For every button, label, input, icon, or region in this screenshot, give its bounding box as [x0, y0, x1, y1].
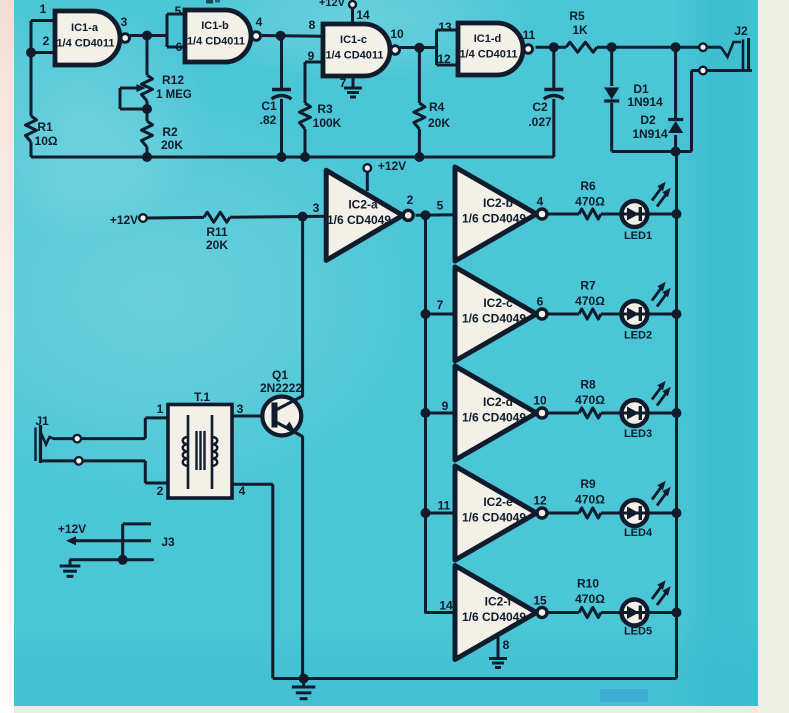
svg-text:470Ω: 470Ω	[575, 393, 605, 407]
svg-text:2N2222: 2N2222	[260, 381, 302, 395]
svg-text:9: 9	[442, 399, 449, 413]
svg-text:1/4 CD4011: 1/4 CD4011	[187, 36, 245, 48]
svg-text:C1: C1	[261, 99, 277, 113]
svg-text:14: 14	[439, 599, 453, 613]
svg-text:1/6 CD4049: 1/6 CD4049	[462, 411, 526, 425]
svg-text:1/6 CD4049: 1/6 CD4049	[462, 610, 526, 624]
svg-text:1/4 CD4011: 1/4 CD4011	[325, 50, 383, 62]
svg-text:.027: .027	[528, 115, 552, 129]
svg-text:R10: R10	[577, 577, 599, 591]
svg-text:2: 2	[43, 34, 50, 48]
svg-text:R6: R6	[580, 179, 596, 193]
svg-text:10Ω: 10Ω	[35, 134, 58, 148]
svg-text:10: 10	[390, 27, 404, 41]
svg-text:6: 6	[176, 40, 183, 54]
svg-text:470Ω: 470Ω	[575, 592, 605, 606]
svg-text:1/4 CD4011: 1/4 CD4011	[56, 38, 114, 50]
svg-text:+12V: +12V	[58, 522, 86, 536]
svg-text:IC2-b: IC2-b	[483, 196, 513, 210]
svg-text:LED3: LED3	[624, 428, 652, 440]
svg-text:R11: R11	[206, 225, 228, 239]
svg-text:LED1: LED1	[624, 230, 652, 242]
svg-text:470Ω: 470Ω	[575, 493, 605, 507]
svg-text:1N914: 1N914	[632, 127, 668, 141]
svg-text:20K: 20K	[161, 138, 183, 152]
svg-text:8: 8	[309, 18, 316, 32]
svg-text:R9: R9	[580, 477, 596, 491]
svg-text:R12: R12	[162, 73, 184, 87]
svg-text:3: 3	[237, 402, 244, 416]
svg-text:D2: D2	[640, 113, 656, 127]
svg-text:1/6 CD4049: 1/6 CD4049	[462, 312, 526, 326]
svg-text:11: 11	[523, 28, 536, 42]
svg-text:1 MEG: 1 MEG	[156, 89, 192, 101]
svg-text:IC2-d: IC2-d	[483, 395, 513, 409]
svg-text:R7: R7	[580, 279, 596, 293]
svg-text:4: 4	[256, 15, 263, 29]
svg-text:4: 4	[537, 195, 544, 209]
svg-text:+12V: +12V	[110, 213, 138, 227]
svg-text:IC2-f: IC2-f	[485, 595, 513, 609]
svg-text:R3: R3	[317, 102, 333, 116]
svg-text:1/4 CD4011: 1/4 CD4011	[459, 49, 517, 61]
svg-text:12: 12	[533, 494, 547, 508]
svg-text:3: 3	[121, 15, 128, 29]
svg-text:12: 12	[437, 52, 451, 66]
svg-text:Q1: Q1	[272, 368, 288, 382]
svg-text:IC2-e: IC2-e	[483, 495, 513, 509]
svg-text:11: 11	[438, 499, 451, 513]
svg-text:R4: R4	[429, 100, 445, 114]
svg-text:IC1-d: IC1-d	[474, 33, 502, 45]
svg-text:1: 1	[40, 2, 47, 16]
svg-text:1/6 CD4049: 1/6 CD4049	[327, 213, 391, 227]
svg-text:.82: .82	[260, 113, 277, 127]
svg-text:J2: J2	[734, 24, 748, 38]
svg-text:5: 5	[437, 199, 444, 213]
svg-text:R1: R1	[37, 120, 53, 134]
svg-text:14: 14	[356, 8, 370, 22]
svg-text:J3: J3	[161, 535, 175, 549]
svg-text:3: 3	[313, 201, 320, 215]
svg-text:7: 7	[340, 76, 347, 90]
svg-text:1K: 1K	[572, 23, 588, 37]
svg-text:1N914: 1N914	[627, 95, 663, 109]
svg-text:470Ω: 470Ω	[575, 195, 605, 209]
svg-text:20K: 20K	[206, 238, 228, 252]
svg-text:470Ω: 470Ω	[575, 294, 605, 308]
svg-text:IC2-a: IC2-a	[348, 197, 378, 211]
svg-text:J1: J1	[35, 414, 49, 428]
svg-text:R5: R5	[569, 9, 585, 23]
svg-text:1: 1	[157, 402, 164, 416]
svg-text:1/6 CD4049: 1/6 CD4049	[462, 212, 526, 226]
svg-text:+12V: +12V	[378, 159, 406, 173]
svg-text:20K: 20K	[428, 116, 450, 130]
svg-text:T.1: T.1	[194, 390, 210, 404]
svg-text:LED4: LED4	[624, 527, 653, 539]
svg-text:10: 10	[533, 394, 547, 408]
svg-text:+12V: +12V	[319, 0, 346, 9]
svg-text:LED5: LED5	[624, 626, 652, 638]
svg-text:4: 4	[239, 484, 246, 498]
svg-text:IC1-a: IC1-a	[71, 22, 99, 34]
svg-text:5: 5	[175, 4, 182, 18]
svg-text:C2: C2	[532, 100, 548, 114]
svg-text:D1: D1	[633, 82, 649, 96]
svg-text:100K: 100K	[313, 116, 342, 130]
svg-text:1/6 CD4049: 1/6 CD4049	[462, 511, 526, 525]
svg-text:R2: R2	[162, 125, 178, 139]
svg-text:15: 15	[533, 594, 547, 608]
svg-text:13: 13	[438, 20, 452, 34]
svg-text:7: 7	[437, 298, 444, 312]
svg-text:IC2-c: IC2-c	[483, 296, 513, 310]
svg-text:IC1-c: IC1-c	[340, 34, 367, 46]
svg-text:LED2: LED2	[624, 330, 652, 342]
svg-text:8: 8	[503, 638, 510, 652]
svg-text:R8: R8	[580, 378, 596, 392]
svg-text:IC1-b: IC1-b	[201, 20, 229, 32]
svg-text:2: 2	[407, 193, 414, 207]
svg-text:6: 6	[537, 295, 544, 309]
svg-text:2: 2	[157, 484, 164, 498]
